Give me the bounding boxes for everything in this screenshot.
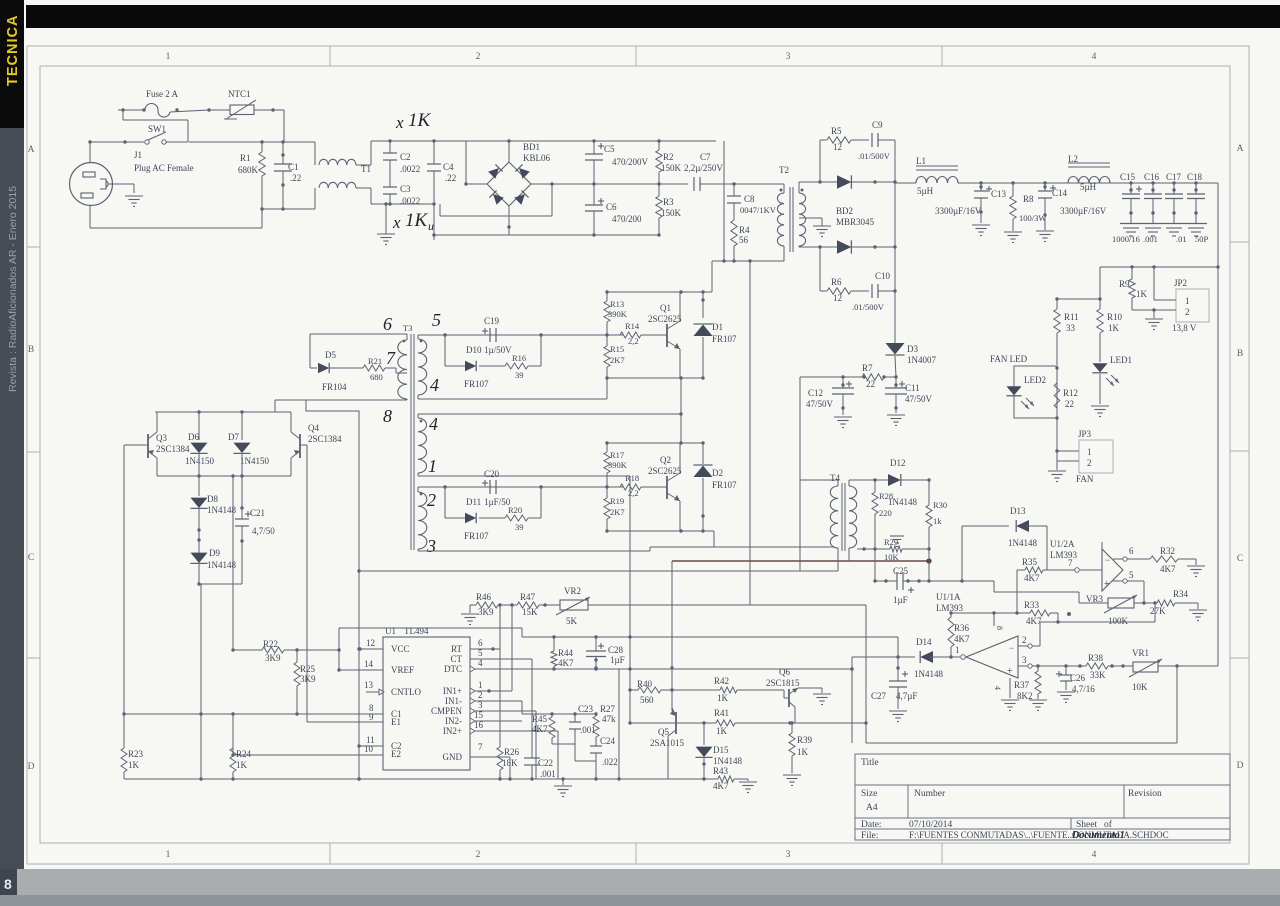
svg-text:6: 6 xyxy=(1129,546,1134,556)
svg-text:R38: R38 xyxy=(1088,653,1104,663)
svg-text:R39: R39 xyxy=(797,735,813,745)
U1 pin 4 DTC xyxy=(470,658,619,672)
svg-text:2: 2 xyxy=(476,850,481,860)
cap bank ground bar xyxy=(1120,223,1207,225)
JP3 ground xyxy=(1048,451,1067,482)
capacitor C27 xyxy=(871,657,917,709)
U1/2A pin5 xyxy=(1113,570,1144,583)
capacitor C6 xyxy=(585,184,642,235)
handwritten pin 1 xyxy=(428,456,437,476)
svg-text:CMPEN: CMPEN xyxy=(431,706,463,716)
svg-text:A: A xyxy=(28,145,35,155)
svg-text:R32: R32 xyxy=(1160,546,1175,556)
trimmer VR3 xyxy=(1079,594,1144,626)
CMPEN drop xyxy=(535,711,537,779)
wire C7 to T2 top xyxy=(734,184,784,193)
svg-text:R18: R18 xyxy=(625,473,639,483)
resistor R44 xyxy=(551,637,574,671)
VR2 line riser x866 xyxy=(865,605,867,743)
pin5 riser xyxy=(1142,581,1145,605)
svg-text:JP2: JP2 xyxy=(1174,278,1187,288)
svg-text:u: u xyxy=(428,219,434,233)
svg-text:1N4148: 1N4148 xyxy=(207,560,236,570)
svg-text:R46: R46 xyxy=(476,592,492,602)
wire T3 pin3 xyxy=(418,549,650,551)
riser x672 xyxy=(670,561,673,711)
svg-text:2: 2 xyxy=(478,690,483,700)
svg-text:R5: R5 xyxy=(831,126,842,136)
transistor Q1 xyxy=(648,292,682,378)
svg-text:R3: R3 xyxy=(663,197,674,207)
Q6 ground xyxy=(813,694,831,705)
wire T3 pin8 xyxy=(275,399,407,400)
RT divider riser xyxy=(499,605,501,649)
svg-text:R23: R23 xyxy=(128,749,144,759)
svg-text:C8: C8 xyxy=(744,194,755,204)
svg-text:x: x xyxy=(395,113,404,132)
transformer T1 xyxy=(315,142,371,209)
svg-text:39: 39 xyxy=(515,370,524,380)
snubber R6 left riser xyxy=(818,245,821,291)
svg-text:4K7: 4K7 xyxy=(1160,564,1176,574)
svg-text:R26: R26 xyxy=(504,747,520,757)
svg-text:NTC1: NTC1 xyxy=(228,89,251,99)
wire Q4 collector to T3 xyxy=(274,400,276,412)
svg-text:1k: 1k xyxy=(933,516,942,526)
svg-text:1N4007: 1N4007 xyxy=(907,355,936,365)
svg-text:R1: R1 xyxy=(240,153,251,163)
osc bottom rail xyxy=(157,475,275,477)
svg-text:1K: 1K xyxy=(717,693,729,703)
resistor R37 xyxy=(1014,666,1041,701)
svg-text:R13: R13 xyxy=(610,299,624,309)
svg-text:IN1-: IN1- xyxy=(445,696,462,706)
capacitor C8 xyxy=(727,182,777,220)
svg-text:1K: 1K xyxy=(1136,289,1148,299)
capacitor C28 xyxy=(586,637,625,670)
wire C12 to T4 xyxy=(800,376,843,378)
svg-text:39: 39 xyxy=(515,522,524,532)
wire D9 C21 bottom xyxy=(199,583,242,585)
feedback row xyxy=(522,712,598,715)
svg-text:R11: R11 xyxy=(1064,312,1079,322)
diode D1 xyxy=(694,292,738,378)
capacitor C16 xyxy=(1144,181,1162,236)
svg-text:10K: 10K xyxy=(884,552,900,562)
svg-text:GND: GND xyxy=(443,752,463,762)
C25 to VR3 staircase xyxy=(929,579,1079,603)
bus drop x619 xyxy=(618,669,620,779)
Q2 cell bottom rail xyxy=(607,529,705,532)
handwritten x1Ku xyxy=(392,210,434,233)
svg-text:2SA1015: 2SA1015 xyxy=(650,738,685,748)
svg-text:D3: D3 xyxy=(907,344,918,354)
svg-text:R35: R35 xyxy=(1022,557,1038,567)
svg-text:1: 1 xyxy=(166,52,171,62)
bridge rectifier BD1 xyxy=(487,142,551,206)
svg-text:.001: .001 xyxy=(1143,234,1158,244)
svg-text:R47: R47 xyxy=(520,592,536,602)
svg-text:2SC1815: 2SC1815 xyxy=(766,678,800,688)
svg-text:.01: .01 xyxy=(1176,234,1187,244)
svg-text:C19: C19 xyxy=(484,316,500,326)
svg-text:SW1: SW1 xyxy=(148,124,166,134)
opamp U1/2A xyxy=(1050,539,1123,591)
svg-text:.01/500V: .01/500V xyxy=(858,151,891,161)
svg-text:3K9: 3K9 xyxy=(265,653,281,663)
svg-text:1N4150: 1N4150 xyxy=(185,456,214,466)
cap bank values xyxy=(1112,234,1209,244)
svg-text:1000/16: 1000/16 xyxy=(1112,234,1140,244)
U1 pin 16 IN2+ xyxy=(470,720,558,734)
U1 pin 1 IN1+ xyxy=(470,680,512,694)
svg-text:4,7/16: 4,7/16 xyxy=(1072,684,1095,694)
svg-text:U1/2A: U1/2A xyxy=(1050,539,1075,549)
svg-text:3: 3 xyxy=(478,700,483,710)
node rail bottom xyxy=(260,207,315,210)
svg-text:4K7: 4K7 xyxy=(713,781,729,791)
R37 ground xyxy=(1029,700,1047,711)
svg-text:B: B xyxy=(1237,349,1243,359)
capacitor C7 xyxy=(659,152,734,191)
Q1 cell top rail xyxy=(605,290,712,293)
diode D10 xyxy=(445,335,489,389)
diode D11 label xyxy=(466,497,511,507)
svg-text:1: 1 xyxy=(955,645,960,655)
svg-text:CNTLO: CNTLO xyxy=(391,687,421,697)
svg-text:2SC1384: 2SC1384 xyxy=(156,444,190,454)
resistor R46 xyxy=(470,592,514,617)
svg-text:R8: R8 xyxy=(1023,194,1034,204)
svg-text:2K7: 2K7 xyxy=(610,355,625,365)
svg-text:MBR3045: MBR3045 xyxy=(836,217,875,227)
svg-text:1K: 1K xyxy=(716,726,728,736)
wire T2 sec top xyxy=(799,182,838,193)
svg-text:R14: R14 xyxy=(625,321,640,331)
JP2 pin1 wire xyxy=(1154,267,1176,300)
resistor R1 xyxy=(238,140,265,209)
svg-text:C2: C2 xyxy=(400,152,411,162)
U1 pin 11 C2 xyxy=(357,735,383,748)
resistor R22 xyxy=(233,639,339,663)
svg-text:3: 3 xyxy=(1022,655,1027,665)
bus D7 column xyxy=(231,474,234,651)
svg-text:1µF/50: 1µF/50 xyxy=(484,497,511,507)
GND drop xyxy=(509,757,511,779)
svg-text:C4: C4 xyxy=(443,162,454,172)
page number 8 block xyxy=(0,869,17,895)
svg-text:E1: E1 xyxy=(391,717,401,727)
svg-text:JP3: JP3 xyxy=(1078,429,1092,439)
svg-text:Documento1: Documento1 xyxy=(1071,830,1125,841)
transformer T3 xyxy=(398,323,427,550)
diode D11 xyxy=(445,487,489,541)
Q4 base bus xyxy=(306,445,308,722)
svg-text:R44: R44 xyxy=(558,648,574,658)
svg-text:R43: R43 xyxy=(713,766,729,776)
resistor R41 xyxy=(702,708,791,736)
svg-text:2: 2 xyxy=(1087,458,1092,468)
svg-text:3: 3 xyxy=(786,52,791,62)
svg-text:C24: C24 xyxy=(600,736,616,746)
svg-text:8: 8 xyxy=(4,876,12,892)
RT to R26 xyxy=(499,649,501,747)
svg-text:F:\FUENTES CONMUTADAS\..\FUENT: F:\FUENTES CONMUTADAS\..\FUENTE..CONMUTA… xyxy=(909,830,1169,840)
wire plug bottom xyxy=(90,206,262,228)
svg-text:R30: R30 xyxy=(933,500,947,510)
diode D15 xyxy=(695,723,742,779)
svg-text:U1/1A: U1/1A xyxy=(936,592,961,602)
svg-text:47/50V: 47/50V xyxy=(905,394,933,404)
left sidebar dark column xyxy=(0,0,24,869)
vertical R4 node to VR2 xyxy=(749,261,751,605)
svg-text:Revision: Revision xyxy=(1128,789,1162,799)
svg-text:CT: CT xyxy=(450,654,462,664)
capacitor C24 xyxy=(590,736,618,767)
svg-text:2,2µ/250V: 2,2µ/250V xyxy=(684,163,723,173)
resistor R4 xyxy=(731,220,750,261)
svg-text:390K: 390K xyxy=(608,309,628,319)
resistor R28 xyxy=(872,480,893,549)
svg-text:2K7: 2K7 xyxy=(610,507,625,517)
svg-text:.022: .022 xyxy=(602,757,618,767)
long wire y571 xyxy=(357,569,800,572)
stray dot xyxy=(1067,612,1071,616)
svg-text:D14: D14 xyxy=(916,637,932,647)
resistor R18 xyxy=(620,473,662,498)
wire T3 pin4b xyxy=(418,412,683,418)
magazine top black bar xyxy=(26,5,1280,28)
U1 pin 10 E2 xyxy=(231,744,383,757)
U1 pin 15 IN2- xyxy=(470,710,522,724)
svg-text:R15: R15 xyxy=(610,344,624,354)
diode D10 label xyxy=(466,345,512,355)
svg-text:FR107: FR107 xyxy=(464,531,489,541)
svg-text:1: 1 xyxy=(428,456,437,476)
wire T3 pin2 xyxy=(418,485,624,492)
svg-text:LED1: LED1 xyxy=(1110,355,1132,365)
svg-text:−: − xyxy=(1105,555,1110,565)
svg-text:470/200V: 470/200V xyxy=(612,157,649,167)
sidebar TECNICA label xyxy=(5,15,21,86)
wire T2 sec bottom xyxy=(799,246,838,247)
capacitor C5 xyxy=(585,139,649,184)
switch SW1 xyxy=(90,124,188,144)
capacitor C10 xyxy=(852,271,895,312)
svg-text:2: 2 xyxy=(476,52,481,62)
diode D13 xyxy=(962,506,1047,570)
svg-text:7: 7 xyxy=(1068,558,1073,568)
R33 right riser xyxy=(1056,613,1059,624)
svg-text:+: + xyxy=(1007,666,1013,677)
U1 pin 5 CT xyxy=(470,648,522,659)
svg-text:47/50V: 47/50V xyxy=(806,399,834,409)
svg-text:5: 5 xyxy=(1129,570,1134,580)
handwritten pin 4b xyxy=(429,414,438,434)
svg-text:D12: D12 xyxy=(890,458,906,468)
svg-text:1K: 1K xyxy=(128,760,140,770)
svg-text:R2: R2 xyxy=(663,152,674,162)
bridge bottom wire xyxy=(432,206,660,237)
svg-text:Plug AC Female: Plug AC Female xyxy=(134,163,194,173)
capacitor C25 xyxy=(873,527,930,605)
opamp power ground xyxy=(1001,678,1019,711)
svg-text:2: 2 xyxy=(427,490,436,510)
svg-text:14: 14 xyxy=(364,659,374,669)
diode D3 xyxy=(886,343,937,377)
svg-text:150K: 150K xyxy=(661,208,682,218)
svg-text:3300µF/16V: 3300µF/16V xyxy=(935,206,982,216)
connector JP2 xyxy=(1172,278,1209,333)
svg-text:7: 7 xyxy=(478,742,483,752)
svg-text:Size: Size xyxy=(861,789,877,799)
U1 pin 9 E1 xyxy=(307,712,383,722)
svg-text:R28: R28 xyxy=(879,491,893,501)
title block grid xyxy=(855,754,1230,840)
transistor Q2 xyxy=(648,443,682,531)
svg-text:D8: D8 xyxy=(207,494,218,504)
Q1 emitter bus xyxy=(680,378,682,414)
R35 drop xyxy=(1015,570,1018,615)
U1 pin 12 VCC xyxy=(358,638,383,651)
svg-text:0047/1KV: 0047/1KV xyxy=(740,205,777,215)
wire C24 bottom xyxy=(575,761,596,779)
svg-text:.22: .22 xyxy=(290,173,301,183)
svg-text:4: 4 xyxy=(430,375,439,395)
svg-text:10: 10 xyxy=(364,744,374,754)
svg-text:1N4150: 1N4150 xyxy=(240,456,269,466)
vertical Q1 rail feed xyxy=(711,261,713,292)
wire bottom to R1 xyxy=(261,209,263,228)
wire LED box bottom xyxy=(1015,416,1059,451)
svg-text:Title: Title xyxy=(861,758,879,768)
resistor R7 xyxy=(843,363,898,389)
resistor R27 xyxy=(593,704,616,737)
svg-text:FR107: FR107 xyxy=(712,480,737,490)
svg-text:LM393: LM393 xyxy=(1050,550,1078,560)
U1/1A pin3 xyxy=(1018,655,1083,668)
svg-text:680: 680 xyxy=(370,372,383,382)
svg-text:5: 5 xyxy=(432,310,441,330)
Q2 cell top rail xyxy=(605,441,704,444)
svg-text:R4: R4 xyxy=(739,225,750,235)
svg-text:Q6: Q6 xyxy=(779,667,790,677)
JP2 ground xyxy=(1145,310,1163,330)
svg-text:1µF: 1µF xyxy=(893,595,908,605)
svg-text:5: 5 xyxy=(478,648,483,658)
mid bus from D9 xyxy=(199,584,202,781)
svg-text:1µ/50V: 1µ/50V xyxy=(484,345,512,355)
svg-text:Q4: Q4 xyxy=(308,423,319,433)
svg-text:560: 560 xyxy=(640,695,654,705)
capacitor C2 xyxy=(383,139,420,187)
R8 ground xyxy=(1004,232,1022,243)
svg-text:C22: C22 xyxy=(538,758,553,768)
svg-text:13: 13 xyxy=(364,680,374,690)
svg-text:D: D xyxy=(1237,761,1244,771)
DTC bus to Q5 region xyxy=(619,667,854,670)
svg-text:IN2+: IN2+ xyxy=(443,726,462,736)
svg-text:BD1: BD1 xyxy=(523,142,540,152)
T2 center ground xyxy=(813,226,831,237)
IN2+ drop xyxy=(557,731,559,779)
svg-text:3300µF/16V: 3300µF/16V xyxy=(1060,206,1107,216)
svg-text:C26: C26 xyxy=(1070,673,1086,683)
vertical top rail to R4 node xyxy=(723,141,725,261)
cap bank labels xyxy=(1120,172,1203,182)
svg-text:R33: R33 xyxy=(1024,600,1040,610)
svg-text:100K: 100K xyxy=(1108,616,1129,626)
svg-text:T2: T2 xyxy=(779,165,789,175)
svg-text:4: 4 xyxy=(478,658,483,668)
bus ground xyxy=(554,779,572,797)
svg-text:IN1+: IN1+ xyxy=(443,686,462,696)
node rail top xyxy=(189,141,315,143)
svg-text:D1: D1 xyxy=(712,322,723,332)
svg-text:56: 56 xyxy=(739,235,749,245)
svg-text:5µH: 5µH xyxy=(1080,182,1097,192)
snubber R5 left riser xyxy=(818,140,821,184)
transistor Q4 xyxy=(275,412,342,476)
resistor R35 xyxy=(1017,557,1075,583)
resistor R9 xyxy=(1119,267,1148,310)
resistor R30 xyxy=(926,480,947,527)
svg-text:C23: C23 xyxy=(578,704,594,714)
svg-text:10K: 10K xyxy=(1132,682,1148,692)
resistor R36 xyxy=(948,611,970,658)
svg-text:1: 1 xyxy=(478,680,483,690)
R4 node wire xyxy=(712,259,784,262)
resistor R20 xyxy=(479,487,541,532)
capacitor C20 xyxy=(482,469,500,494)
FAN LED box xyxy=(990,354,1057,418)
svg-text:E2: E2 xyxy=(391,749,401,759)
bridge right vertex wire xyxy=(440,182,554,216)
svg-text:T4: T4 xyxy=(830,473,840,483)
svg-text:LED2: LED2 xyxy=(1024,375,1046,385)
diode BD2 top xyxy=(837,175,895,189)
plug earth wire xyxy=(108,184,134,193)
handwritten x1K xyxy=(395,110,432,132)
svg-text:R20: R20 xyxy=(508,505,522,515)
resistor R15 xyxy=(604,335,625,380)
svg-text:1N4148: 1N4148 xyxy=(713,756,742,766)
svg-text:4: 4 xyxy=(1092,52,1097,62)
C12 ground xyxy=(834,417,852,428)
resistor R47 xyxy=(512,592,560,617)
C14 ground xyxy=(1036,231,1054,242)
svg-text:C7: C7 xyxy=(700,152,711,162)
svg-text:Q5: Q5 xyxy=(658,727,669,737)
svg-text:D6: D6 xyxy=(188,432,199,442)
plug earth ground xyxy=(125,196,143,207)
svg-text:D11: D11 xyxy=(466,497,481,507)
osc top rail xyxy=(155,410,275,413)
svg-text:C11: C11 xyxy=(905,383,920,393)
wire R11 R10 rail xyxy=(1055,297,1101,300)
bottom bus xyxy=(124,777,718,780)
svg-text:FR107: FR107 xyxy=(712,334,737,344)
svg-text:RT: RT xyxy=(451,644,462,654)
pin1 riser xyxy=(511,605,513,691)
U1 pin names xyxy=(391,644,462,762)
svg-text:C15: C15 xyxy=(1120,172,1136,182)
svg-text:4,7µF: 4,7µF xyxy=(896,691,917,701)
svg-text:6: 6 xyxy=(383,314,392,334)
handwritten pin 6 xyxy=(383,314,392,334)
U1/2A pin6 xyxy=(1113,546,1150,561)
filter ground xyxy=(377,202,395,244)
